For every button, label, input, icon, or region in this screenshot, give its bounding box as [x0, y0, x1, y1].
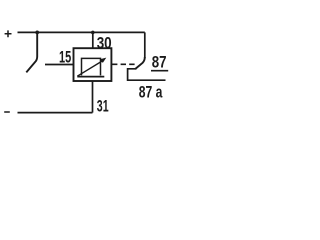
minus terminal: [4, 111, 10, 113]
variable arrow diagonal: [77, 61, 102, 76]
plus terminal: [5, 30, 12, 37]
svg-text:30: 30: [97, 34, 112, 53]
svg-text:15: 15: [59, 48, 71, 67]
inner symbol base line: [77, 76, 104, 78]
variable arrow head: [100, 58, 107, 63]
node junction dot 30: [91, 31, 95, 35]
terminal 87 underline wire: [151, 70, 168, 72]
svg-text:87 a: 87 a: [139, 83, 163, 102]
relay blade to 87a (closed): [135, 57, 145, 69]
wire bottom bus: [18, 112, 93, 114]
svg-text:87: 87: [152, 53, 167, 72]
wire terminal 31 vertical: [92, 81, 94, 113]
regulator box U1: [74, 48, 112, 81]
wire terminal 30 vertical: [92, 32, 94, 48]
inner square of regulator symbol: [82, 58, 101, 75]
node junction dot left: [35, 31, 39, 35]
wire terminal 15: [45, 64, 74, 66]
switch S1 blade (ignition switch, open): [26, 32, 37, 72]
wire terminal 30 right drop: [144, 32, 146, 58]
svg-text:31: 31: [97, 97, 109, 116]
dashed actuator link: [112, 63, 137, 65]
wire top bus: [18, 31, 145, 33]
contact 87a plate and wire: [128, 69, 166, 80]
